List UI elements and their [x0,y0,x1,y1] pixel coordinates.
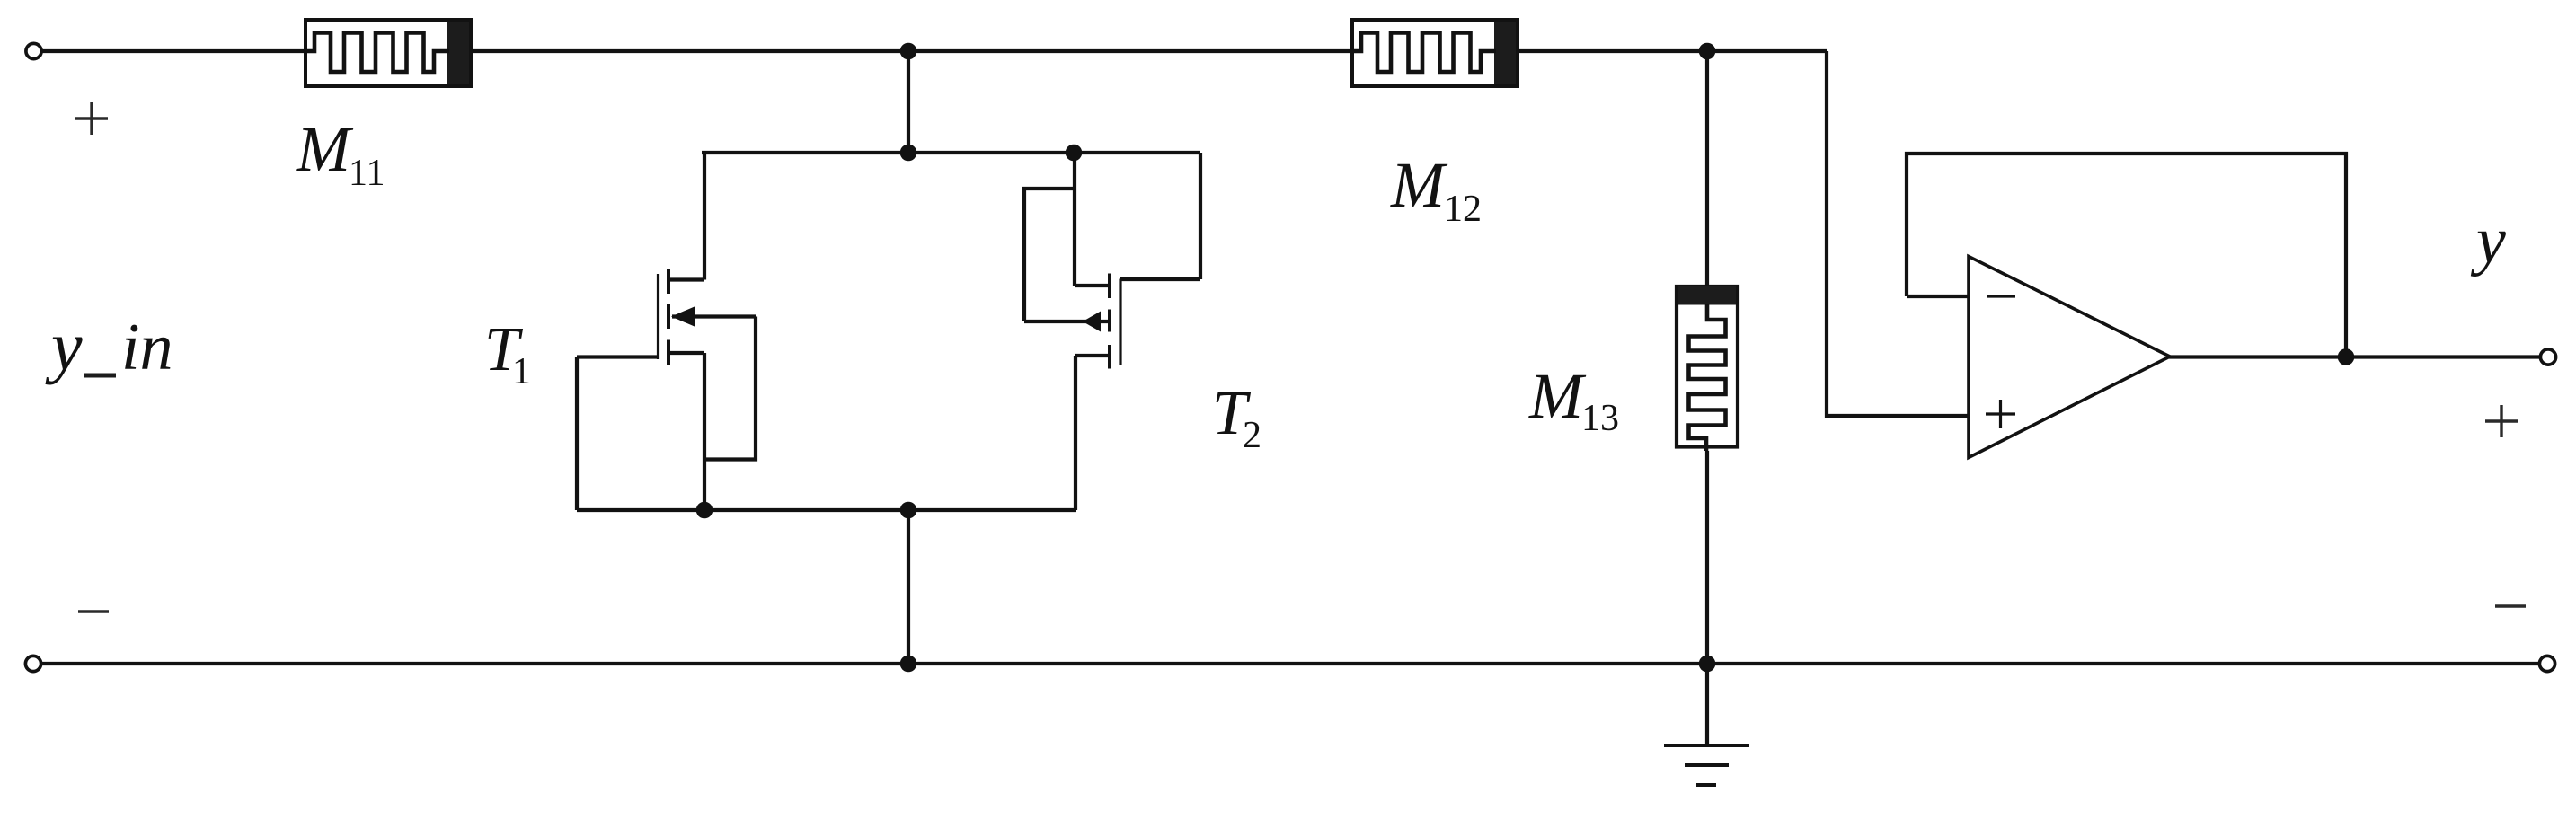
svg-text:1: 1 [512,351,531,392]
svg-text:2: 2 [1243,415,1261,456]
svg-text:y: y [45,307,83,385]
svg-text:13: 13 [1581,398,1619,439]
svg-text:12: 12 [1444,189,1482,230]
svg-text:11: 11 [349,153,385,194]
svg-text:M: M [1390,149,1448,221]
svg-text:in: in [121,311,173,384]
svg-text:M: M [296,113,354,185]
svg-text:M: M [1528,360,1587,432]
